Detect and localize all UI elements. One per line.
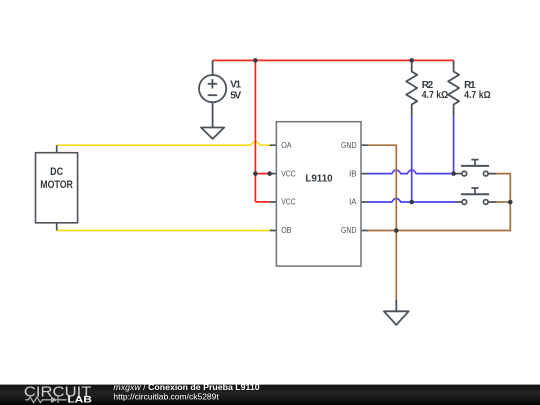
ground under V1 bbox=[201, 128, 224, 139]
svg-text:VCC: VCC bbox=[281, 169, 296, 178]
wire: +5V red top rail from V1 to R1 bbox=[213, 59, 454, 61]
wire: red vertical branch to VCC pins bbox=[255, 60, 269, 202]
svg-text:mxgxw / Conexion de Prueba L91: mxgxw / Conexion de Prueba L9110 bbox=[113, 382, 260, 392]
junction node GND rail crossing bbox=[394, 228, 399, 233]
svg-text:V1: V1 bbox=[230, 80, 241, 91]
svg-text:LAB: LAB bbox=[67, 394, 92, 404]
svg-text:IB: IB bbox=[349, 169, 356, 178]
junction node red rail / V1 branch bbox=[253, 58, 258, 63]
resistor R2 bbox=[406, 60, 417, 116]
footer bar bbox=[0, 385, 540, 405]
svg-text:OB: OB bbox=[281, 226, 291, 235]
svg-text:OA: OA bbox=[281, 141, 292, 150]
voltage source V1 bbox=[199, 60, 226, 127]
wire: yellow OB motor bottom wire bbox=[57, 230, 270, 232]
svg-text:GND: GND bbox=[341, 226, 357, 235]
pushbutton switch SW2 (IA) bbox=[456, 188, 497, 204]
DC motor M1 bbox=[36, 145, 78, 230]
wire: brown GND from IC pin1 right side down to ground bbox=[368, 145, 396, 300]
svg-text:http://circuitlab.com/ck5289t: http://circuitlab.com/ck5289t bbox=[113, 391, 219, 401]
junction node R2 / IA bbox=[409, 200, 414, 205]
logo resistor-diode glyph bbox=[25, 397, 67, 403]
wire: blue IB net with hops over brown and R2 column bbox=[368, 170, 454, 174]
junction node SW2 / riser bbox=[508, 200, 513, 205]
svg-text:DC: DC bbox=[50, 166, 63, 178]
resistor R1 bbox=[448, 60, 459, 116]
svg-text:L9110: L9110 bbox=[305, 173, 333, 184]
wire: blue IA net with hop over brown bbox=[368, 198, 456, 202]
svg-text:4.7 kΩ: 4.7 kΩ bbox=[422, 90, 449, 101]
wire: blue R2 column down to IA bbox=[411, 116, 413, 202]
svg-text:IA: IA bbox=[349, 198, 357, 207]
wire: blue R1 column down to IB bbox=[453, 116, 455, 174]
svg-text:4.7 kΩ: 4.7 kΩ bbox=[464, 90, 491, 101]
svg-text:GND: GND bbox=[341, 141, 357, 150]
wire: brown stub switch2 to riser bbox=[497, 201, 511, 203]
junction node red rail / R2 top bbox=[409, 58, 414, 63]
wire: yellow OA motor top wire with hop over red bbox=[57, 142, 270, 146]
junction node red vertical / VCC1 branch bbox=[253, 171, 258, 176]
pushbutton switch SW1 (IB) bbox=[454, 160, 497, 176]
wire: brown GND bottom rail from IC to right riser bbox=[368, 174, 510, 231]
op-amp driver IC U1 L9110 bbox=[270, 122, 368, 266]
svg-text:5V: 5V bbox=[230, 90, 241, 101]
ground at bottom bbox=[384, 300, 409, 325]
junction node R1 / IB / SW1 bbox=[451, 171, 456, 176]
svg-text:MOTOR: MOTOR bbox=[40, 179, 73, 191]
junction node VCC1 pin bbox=[267, 171, 272, 176]
svg-text:VCC: VCC bbox=[281, 198, 296, 207]
